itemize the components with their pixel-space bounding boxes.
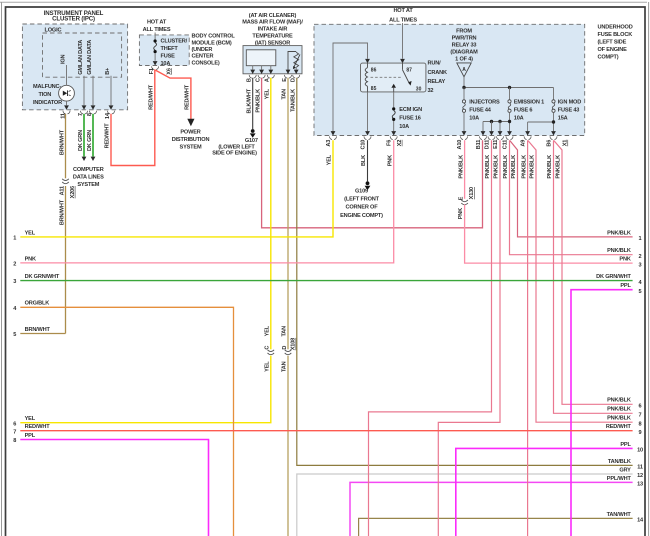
svg-text:PNK/BLK: PNK/BLK [494, 155, 500, 179]
wire DK GRN from IPC pin 7 [78, 114, 86, 161]
svg-text:E11: E11 [493, 140, 499, 149]
underhood fuse block label [598, 25, 633, 61]
svg-text:DISTRIBUTION: DISTRIBUTION [172, 137, 210, 143]
svg-text:A: A [462, 67, 466, 73]
svg-text:INDICATOR: INDICATOR [33, 100, 62, 106]
svg-text:11: 11 [637, 465, 643, 471]
svg-text:PNK/BLK: PNK/BLK [607, 398, 631, 404]
left margin wire number 8 PPL [13, 433, 35, 444]
svg-text:CONSOLE): CONSOLE) [192, 60, 220, 66]
power distribution system label [172, 130, 210, 151]
fuse block pin C11 [502, 136, 513, 149]
svg-text:(LOWER LEFT: (LOWER LEFT [218, 145, 255, 151]
wire GRY from bottom to right wire 12 [297, 474, 633, 536]
svg-text:C: C [265, 346, 271, 350]
svg-text:PNK: PNK [619, 257, 630, 263]
IPC wire IGN (pin 11) [60, 54, 69, 109]
svg-text:(LEFT SIDE: (LEFT SIDE [598, 40, 627, 46]
svg-text:FROM: FROM [456, 28, 472, 34]
wire TAN/BLK from MAF pin D to right wire 11 [291, 78, 633, 466]
svg-text:32: 32 [428, 88, 434, 94]
svg-text:(UNDER: (UNDER [192, 47, 213, 53]
ground G109 [340, 181, 383, 218]
svg-text:PNK: PNK [25, 256, 36, 262]
IPC pin 11 connector [60, 111, 70, 119]
wire PNK/BLK pin C11 branch to right wire 1 [510, 141, 633, 237]
svg-text:PNK: PNK [387, 155, 393, 166]
svg-text:B6: B6 [546, 140, 552, 147]
svg-text:DK GRN: DK GRN [78, 130, 84, 151]
right margin wire number 8 PNK/BLK [607, 416, 641, 428]
IPC wire GMLAN DATA (pin 7) [78, 40, 86, 110]
svg-text:PPL: PPL [620, 442, 631, 448]
svg-text:PNK/BLK: PNK/BLK [607, 407, 631, 413]
svg-text:CRANK: CRANK [428, 70, 447, 76]
IAT thermistor element [286, 52, 300, 75]
triangle source symbol A [457, 63, 471, 88]
right margin wire number 4 DK GRN/WHT [596, 274, 642, 286]
svg-text:YEL: YEL [25, 416, 36, 422]
MAF pin A connector [265, 75, 275, 82]
svg-text:D11: D11 [484, 140, 490, 149]
wire PPL left wire 8 to bottom [20, 440, 208, 536]
svg-text:FUSE 43: FUSE 43 [558, 107, 580, 113]
svg-text:ECM IGN: ECM IGN [399, 107, 422, 113]
svg-text:X2: X2 [397, 140, 403, 147]
svg-text:C: C [256, 78, 262, 82]
svg-text:PNK/BLK: PNK/BLK [547, 155, 553, 179]
run/crank relay 32 [361, 61, 447, 95]
HOT AT ALL TIMES label (fuse block) [389, 8, 417, 23]
svg-text:PNK: PNK [458, 208, 464, 219]
MAF pin A stub [268, 66, 273, 74]
svg-text:RED/WHT: RED/WHT [606, 424, 632, 430]
svg-text:5: 5 [13, 332, 16, 338]
svg-text:PNK/BLK: PNK/BLK [607, 230, 631, 236]
wire PPL right wire 5 to bottom [571, 290, 633, 536]
wire PNK from pin F6 to left wire 2 [20, 140, 393, 263]
svg-text:COMPT): COMPT) [598, 55, 619, 61]
IPC pin 14 connector [105, 111, 115, 119]
svg-text:THEFT: THEFT [161, 46, 179, 52]
right margin wire number 2 PNK/BLK [607, 248, 641, 260]
wire PNK/BLK pin C11 to right wire 2 [503, 140, 632, 255]
left margin wire number 7 RED/WHT [13, 424, 50, 435]
svg-text:TEMPERATURE: TEMPERATURE [252, 34, 293, 40]
svg-text:8: 8 [639, 421, 642, 427]
svg-text:E: E [458, 196, 464, 200]
svg-text:IGN MOD: IGN MOD [558, 100, 581, 106]
malfunction indicator lamp [33, 84, 74, 106]
MAF pin C stub [259, 66, 264, 74]
svg-text:C11: C11 [502, 140, 508, 149]
right margin wire number 10 PPL [620, 442, 643, 454]
body control module (BCM) box [139, 33, 235, 66]
svg-text:BRN/WHT: BRN/WHT [25, 327, 51, 333]
svg-text:PNK/BLK: PNK/BLK [607, 416, 631, 422]
svg-text:F6: F6 [387, 140, 393, 146]
svg-text:MASS AIR FLOW (MAF)/: MASS AIR FLOW (MAF)/ [242, 20, 303, 26]
right margin wire number 5 PPL [620, 283, 641, 295]
wire BLK/WHT from MAF pin B to G107 [246, 78, 252, 129]
svg-text:8: 8 [13, 438, 16, 444]
wire DK GRN from IPC pin 8 [87, 114, 95, 161]
wire RED/WHT from F1 to power distribution [156, 70, 195, 126]
svg-text:ALL TIMES: ALL TIMES [143, 27, 171, 33]
fuse 6 output sub-bus to pins B11 D11 E11 [481, 120, 512, 136]
svg-text:X206: X206 [70, 186, 76, 198]
svg-text:INTAKE AIR: INTAKE AIR [258, 27, 288, 33]
inline connector X108 pin D on TAN [282, 326, 297, 372]
svg-text:YEL: YEL [265, 361, 271, 372]
svg-text:HOT AT: HOT AT [393, 8, 413, 14]
svg-text:9: 9 [639, 430, 642, 436]
svg-text:UNDERHOOD: UNDERHOOD [598, 25, 633, 31]
wire DK GRN/WHT full width (left 3 / right 4) [20, 280, 632, 282]
wire PNK from X130 to right wire 3 [458, 204, 633, 263]
svg-text:12: 12 [637, 473, 643, 479]
svg-text:PWR/TRN: PWR/TRN [452, 35, 477, 41]
svg-text:7: 7 [78, 113, 84, 116]
FROM PWR/TRN RELAY 33 label [450, 28, 478, 62]
svg-text:10A: 10A [469, 115, 479, 121]
svg-text:D: D [291, 78, 297, 82]
svg-text:A10: A10 [457, 140, 463, 150]
svg-text:TAN: TAN [282, 326, 288, 337]
svg-text:X1: X1 [563, 140, 569, 147]
svg-text:F1: F1 [149, 68, 155, 74]
svg-text:2: 2 [13, 262, 16, 268]
wire PPL right wire 10 to bottom [456, 448, 633, 536]
right margin wire number 1 PNK/BLK [607, 230, 641, 242]
svg-text:RELAY 33: RELAY 33 [452, 42, 477, 48]
fuse block pin A10 [457, 136, 468, 149]
svg-text:INJECTORS: INJECTORS [469, 100, 500, 106]
IPC LOGIC sub-box [43, 27, 122, 77]
svg-text:8: 8 [87, 113, 93, 116]
right margin wire number 11 TAN/BLK [608, 459, 643, 471]
wire TAN from MAF pin E to bottom [282, 78, 288, 536]
svg-text:10A: 10A [161, 61, 171, 67]
svg-text:86: 86 [371, 68, 377, 74]
svg-text:G109: G109 [355, 188, 368, 194]
fuse block pin C10 [360, 136, 371, 149]
MAF pin E connector [282, 75, 292, 82]
fuse block pin F6 [387, 136, 398, 146]
wire YEL from MAF pin A down to left wire 6 [20, 78, 270, 423]
svg-text:BODY CONTROL: BODY CONTROL [192, 33, 236, 39]
left margin wire number 2 PNK [13, 256, 36, 267]
window top grey line [0, 1, 647, 3]
right margin wire number 9 RED/WHT [606, 424, 642, 436]
window left grey line [1, 2, 3, 536]
svg-text:CLUSTER/: CLUSTER/ [161, 38, 188, 44]
window right grey line [648, 2, 650, 536]
right margin wire number 14 TAN/WHT [607, 512, 644, 524]
wire RED/WHT from IPC pin 14 to BCM fuse F1 [105, 69, 155, 165]
instrument panel cluster (IPC) box [22, 10, 127, 110]
fuse block pin A9 [520, 136, 531, 146]
wire RED/WHT full width (left 7 / right 9) [20, 430, 632, 432]
svg-text:RED/WHT: RED/WHT [185, 84, 191, 110]
svg-text:ENGINE COMPT): ENGINE COMPT) [340, 213, 383, 219]
svg-text:10A: 10A [514, 115, 524, 121]
svg-text:1: 1 [13, 236, 16, 242]
svg-text:B: B [247, 78, 253, 82]
left margin wire number 3 DK GRN/WHT [13, 274, 60, 285]
wire BRN/WHT from IPC pin 11 [59, 114, 65, 196]
svg-text:1 OF 4): 1 OF 4) [455, 56, 473, 62]
MAF/IAT sensor box [243, 46, 302, 74]
wire PPL/WHT from bottom to right wire 13 [350, 482, 633, 536]
svg-text:SYSTEM: SYSTEM [180, 145, 202, 151]
svg-text:SIDE OF ENGINE): SIDE OF ENGINE) [212, 151, 257, 157]
IPC wire GMLAN DATA (pin 8) [87, 40, 95, 110]
svg-text:15A: 15A [558, 115, 568, 121]
svg-text:3: 3 [639, 262, 642, 268]
svg-text:BRN/WHT: BRN/WHT [59, 129, 65, 155]
svg-text:87: 87 [406, 68, 412, 74]
svg-text:G107: G107 [245, 138, 258, 144]
svg-text:DATA LINES: DATA LINES [73, 175, 104, 181]
svg-text:7: 7 [13, 429, 16, 435]
svg-text:3: 3 [13, 279, 16, 285]
MAF inner element box [246, 50, 275, 66]
inline connector X206 on BRN/WHT [62, 178, 76, 198]
fuse 43 output sub-bus to pin A9 [525, 120, 555, 135]
wire PNK/BLK pin A9 branch to right wire 8 [528, 141, 633, 423]
fuse block pin B11 [476, 136, 487, 149]
svg-text:10A: 10A [399, 124, 409, 130]
svg-text:DK GRN/WHT: DK GRN/WHT [25, 274, 60, 280]
underhood fuse block box [314, 24, 585, 135]
svg-text:PNK/BLK: PNK/BLK [521, 155, 527, 179]
svg-text:MALFUNC-: MALFUNC- [33, 84, 61, 90]
wire PNK/BLK pin D11 to bottom via left jog [369, 140, 492, 536]
svg-text:6: 6 [13, 421, 16, 427]
svg-text:TAN/WHT: TAN/WHT [607, 512, 632, 518]
svg-text:13: 13 [637, 482, 643, 488]
svg-text:GRY: GRY [619, 467, 631, 473]
svg-text:PNK/BLK: PNK/BLK [458, 155, 464, 179]
IPC wire B+ (pin 14) [105, 67, 113, 110]
svg-text:FUSE 16: FUSE 16 [399, 116, 421, 122]
wire BLK from pin C10 to G109 [361, 140, 367, 181]
feed wire to relay coil pin 86 from pin A3 branch [333, 43, 370, 136]
ECM IGN fuse 16 [391, 107, 422, 136]
svg-text:5: 5 [639, 289, 642, 295]
svg-text:FUSE BLOCK: FUSE BLOCK [598, 32, 633, 38]
fuse block pin D11 [484, 136, 495, 149]
svg-text:PNK/BLK: PNK/BLK [255, 89, 261, 113]
svg-text:TION: TION [39, 92, 52, 98]
svg-text:YEL: YEL [25, 230, 36, 236]
left margin wire number 6 YEL [13, 416, 35, 427]
svg-text:TAN/BLK: TAN/BLK [608, 459, 631, 465]
wire PNK/BLK pin B6 to right wire 7 [547, 140, 632, 413]
svg-text:RED/WHT: RED/WHT [25, 424, 51, 430]
injectors fuse 44 [462, 88, 500, 136]
left margin wire number 4 ORG/BLK [13, 301, 49, 312]
svg-text:YEL: YEL [327, 154, 333, 165]
svg-text:D: D [282, 346, 288, 350]
svg-text:BLK/WHT: BLK/WHT [246, 88, 252, 113]
fuse block pin A3 [326, 131, 337, 146]
svg-text:PPL: PPL [620, 283, 631, 289]
wire PNK/BLK pin B6 branch to right wire 6 [554, 141, 633, 405]
svg-text:85: 85 [371, 86, 377, 92]
IPC pin 8 connector [87, 111, 97, 116]
svg-text:B+: B+ [105, 67, 111, 75]
svg-text:TAN/BLK: TAN/BLK [291, 89, 297, 112]
svg-text:DK GRN/WHT: DK GRN/WHT [596, 274, 631, 280]
svg-text:RED/WHT: RED/WHT [149, 84, 155, 110]
wire ORG/BLK left wire 4 to bottom [20, 307, 233, 536]
svg-text:POWER: POWER [180, 130, 200, 136]
svg-text:TAN: TAN [282, 361, 288, 372]
MAF pin B stub [250, 66, 255, 74]
right margin wire number 13 PPL/WHT [607, 476, 643, 488]
svg-text:PPL/WHT: PPL/WHT [607, 476, 632, 482]
svg-text:BRN/WHT: BRN/WHT [59, 199, 65, 225]
svg-text:30: 30 [416, 87, 422, 93]
emission 1 fuse 6 [507, 88, 544, 136]
fuse block pin E11 [493, 136, 504, 149]
IPC pin 7 connector [78, 111, 88, 116]
fuse supply bus [462, 86, 553, 89]
right margin wire number 3 PNK [619, 257, 641, 269]
svg-text:PNK/BLK: PNK/BLK [607, 248, 631, 254]
svg-text:ORG/BLK: ORG/BLK [25, 301, 50, 307]
inline connector X130 pin E [458, 187, 475, 206]
CLUSTER/THEFT fuse [153, 33, 188, 68]
svg-text:1: 1 [639, 236, 642, 242]
computer data lines system label [73, 167, 104, 188]
wire relay pin 85 to pin C10 [365, 92, 370, 136]
svg-text:RUN/: RUN/ [428, 61, 442, 67]
svg-text:OF ENGINE: OF ENGINE [598, 47, 628, 53]
wire relay pin 30 to ECM IGN fuse 16 [393, 92, 395, 107]
svg-text:B11: B11 [476, 140, 482, 149]
wire BRN/WHT left wire 5 [20, 333, 65, 335]
svg-text:PNK/BLK: PNK/BLK [530, 155, 536, 179]
svg-text:X130: X130 [469, 187, 475, 199]
svg-text:(DIAGRAM: (DIAGRAM [450, 49, 478, 55]
svg-text:A: A [265, 78, 271, 82]
svg-text:BLK: BLK [361, 155, 367, 166]
wire PNK/BLK from MAF pin C to fuse block pin B11 [255, 78, 482, 228]
svg-text:PNK/BLK: PNK/BLK [511, 155, 517, 179]
left margin wire number 5 BRN/WHT [13, 327, 50, 338]
svg-text:PNK/BLK: PNK/BLK [556, 155, 562, 179]
svg-text:2: 2 [639, 254, 642, 260]
wire TAN/WHT from bottom to right wire 14 [359, 518, 633, 536]
right margin wire number 12 GRY [619, 467, 643, 479]
fuse block pin B6 [546, 136, 557, 146]
svg-text:A11: A11 [60, 186, 66, 195]
svg-text:X108: X108 [291, 338, 297, 350]
svg-text:C10: C10 [360, 140, 366, 150]
svg-text:IGN: IGN [60, 54, 66, 64]
svg-text:PNK/BLK: PNK/BLK [503, 155, 509, 179]
svg-text:EMISSION 1: EMISSION 1 [514, 100, 544, 106]
svg-text:LOGIC: LOGIC [45, 27, 62, 33]
MAF pin D connector [291, 75, 300, 82]
svg-text:A9: A9 [520, 140, 526, 147]
svg-text:PNK/BLK: PNK/BLK [485, 155, 491, 179]
svg-text:YEL: YEL [265, 88, 271, 99]
svg-text:TAN: TAN [282, 89, 288, 100]
svg-text:MODULE (BCM): MODULE (BCM) [192, 40, 232, 46]
svg-text:E: E [282, 78, 288, 82]
svg-text:CENTER: CENTER [192, 53, 214, 59]
svg-text:(AT AIR CLEANER): (AT AIR CLEANER) [249, 13, 297, 19]
ign mod fuse 43 [551, 88, 581, 136]
BCM pin F1 connector [149, 66, 159, 74]
right margin wire number 6 PNK/BLK [607, 398, 641, 410]
svg-text:COMPUTER: COMPUTER [73, 167, 104, 173]
svg-text:CORNER OF: CORNER OF [346, 205, 379, 211]
svg-text:DK GRN: DK GRN [87, 130, 93, 151]
svg-text:6: 6 [639, 404, 642, 410]
svg-text:RELAY: RELAY [428, 79, 446, 85]
svg-text:ALL TIMES: ALL TIMES [389, 17, 417, 23]
ground G107 [212, 129, 258, 157]
MAF pin C connector [256, 75, 266, 82]
svg-text:GMLAN DATA: GMLAN DATA [78, 40, 84, 75]
svg-text:FUSE 44: FUSE 44 [469, 107, 492, 113]
svg-text:GMLAN DATA: GMLAN DATA [87, 40, 93, 75]
svg-text:SYSTEM: SYSTEM [77, 182, 99, 188]
inline connector X108 pin C on YEL [265, 325, 275, 372]
svg-text:RED/WHT: RED/WHT [105, 123, 111, 149]
left margin wire number 1 YEL [13, 230, 35, 241]
svg-text:YEL: YEL [265, 325, 271, 336]
wire PNK/BLK from pin A10 to connector X130 [458, 140, 464, 199]
svg-text:PPL: PPL [25, 433, 36, 439]
wire YEL from pin A3 to left wire 1 [20, 140, 333, 237]
MAF/IAT sensor title [242, 13, 303, 47]
svg-text:FUSE 6: FUSE 6 [514, 107, 533, 113]
feed wire from HOT AT ALL TIMES to relay pin 87 [400, 23, 405, 63]
svg-text:7: 7 [639, 413, 642, 419]
svg-text:(LEFT FRONT: (LEFT FRONT [344, 197, 379, 203]
svg-text:A3: A3 [326, 140, 332, 147]
MAF pin B connector [247, 75, 257, 82]
svg-text:10: 10 [637, 448, 643, 454]
HOT AT ALL TIMES label (BCM) [143, 19, 171, 33]
wire PNK/BLK pin E11 to bottom via left jog [438, 140, 500, 536]
svg-text:CLUSTER (IPC): CLUSTER (IPC) [52, 16, 95, 23]
svg-text:HOT AT: HOT AT [147, 19, 167, 25]
wire BRN/WHT below X206 down to left wire 5 [59, 186, 65, 334]
wire PNK/BLK pin A9 to bottom [521, 140, 527, 536]
right margin wire number 7 PNK/BLK [607, 407, 641, 419]
svg-text:FUSE: FUSE [161, 54, 176, 60]
svg-text:X6: X6 [166, 68, 172, 75]
